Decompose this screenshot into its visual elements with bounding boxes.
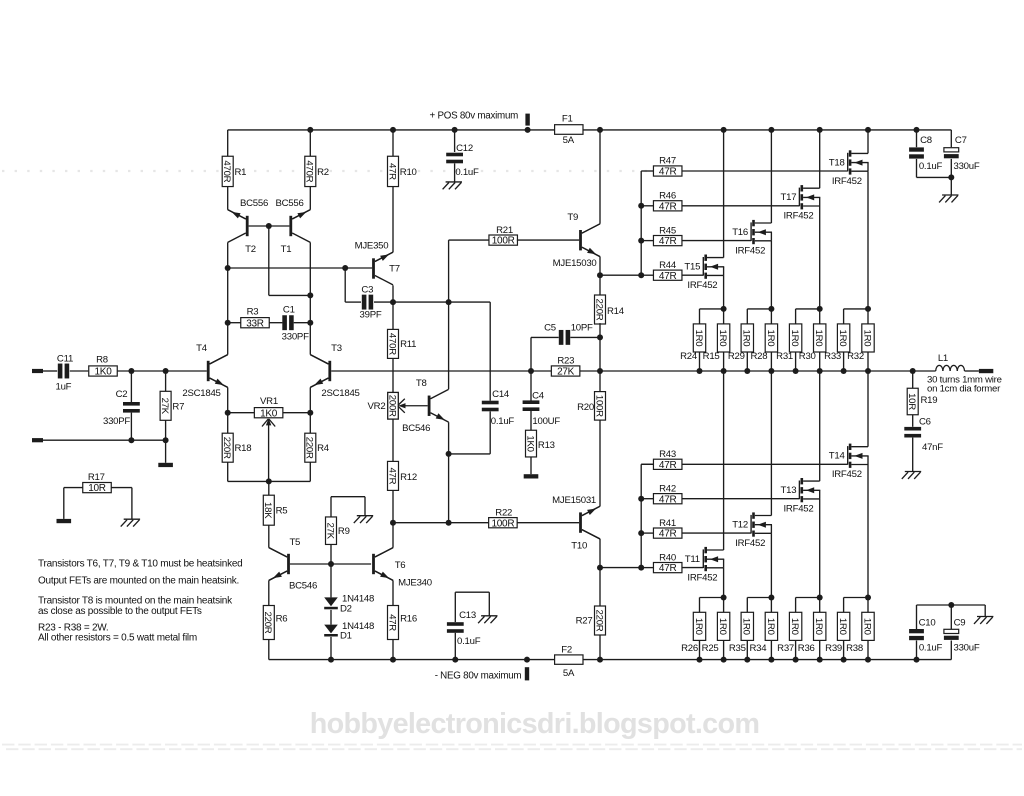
- wire gate R44 to T15: [682, 274, 703, 276]
- resistor R1: [222, 156, 233, 186]
- svg-text:1R0: 1R0: [717, 330, 728, 347]
- wire top +80V rail: [228, 129, 555, 131]
- svg-text:R26: R26: [681, 643, 698, 654]
- wire bias bottom line: [228, 480, 311, 482]
- trimpot VR1: [254, 408, 283, 418]
- svg-text:C1: C1: [283, 304, 295, 315]
- resistor R35 1R0: [747, 597, 771, 599]
- node R27 rail: [597, 657, 603, 663]
- ground R9: [357, 515, 373, 517]
- svg-text:R41: R41: [659, 518, 676, 529]
- node C3 branch: [342, 265, 348, 271]
- wire rail to R2: [309, 130, 311, 156]
- resistor R13: [526, 430, 537, 457]
- svg-text:1R0: 1R0: [813, 618, 824, 635]
- svg-text:1R0: 1R0: [693, 618, 704, 635]
- resistor R8: [89, 366, 118, 376]
- svg-text:220R: 220R: [593, 299, 604, 321]
- faint dashed artifact lines: [2, 744, 1022, 746]
- svg-text:330uF: 330uF: [954, 643, 980, 654]
- wire gate R41 to T12: [682, 532, 751, 534]
- ground C12: [446, 181, 462, 183]
- svg-text:39PF: 39PF: [360, 310, 382, 321]
- mosfet T16 (IRF452): [750, 222, 752, 241]
- node diode chain base: [328, 561, 334, 567]
- resistor R21: [489, 235, 518, 245]
- svg-text:2SC1845: 2SC1845: [321, 388, 359, 399]
- svg-text:R19: R19: [921, 395, 938, 406]
- svg-text:27K: 27K: [324, 523, 335, 540]
- node T4 emitter / VR1 / R18: [225, 410, 231, 416]
- svg-text:R44: R44: [659, 260, 677, 271]
- svg-text:47R: 47R: [659, 529, 677, 540]
- svg-text:T3: T3: [331, 343, 342, 354]
- wire source T14 down: [867, 465, 869, 598]
- resistor R10: [388, 156, 399, 186]
- wire rail corner down to R1: [227, 130, 229, 156]
- wire source T11 down: [723, 568, 725, 598]
- node T2 collector / T7 base line: [225, 265, 231, 271]
- resistor R9: [326, 517, 337, 545]
- svg-text:C14: C14: [492, 389, 510, 400]
- diode D2 (1N4148): [330, 564, 332, 597]
- wire gate R42 to T13: [682, 498, 800, 500]
- svg-text:IRF452: IRF452: [687, 280, 717, 291]
- svg-text:All other resistors = 0.5 watt: All other resistors = 0.5 watt metal fil…: [38, 633, 197, 644]
- wire return line: [43, 439, 166, 441]
- resistor R17: [83, 483, 112, 493]
- node rail C10: [914, 657, 920, 663]
- svg-text:47R: 47R: [386, 163, 397, 180]
- wire R21 to T9 base: [517, 239, 579, 241]
- wire R2 to T1 emitter: [309, 187, 311, 210]
- wire R22 line: [393, 522, 489, 524]
- wire C8 C7 ground join: [917, 176, 952, 178]
- svg-text:R16: R16: [400, 614, 417, 625]
- resistor R7: [165, 371, 167, 391]
- svg-text:R30: R30: [799, 351, 816, 362]
- transistor T2 (BC556): [228, 210, 246, 219]
- svg-text:1R0: 1R0: [861, 618, 872, 635]
- ground bar under R13: [524, 474, 539, 478]
- svg-text:100R: 100R: [491, 518, 514, 529]
- svg-text:10R: 10R: [906, 393, 917, 410]
- inductor L1: [936, 365, 943, 371]
- resistor R32 1R0: [867, 309, 869, 324]
- svg-text:1K0: 1K0: [260, 408, 278, 419]
- node R3-C1 right: [307, 320, 313, 326]
- svg-text:R47: R47: [659, 156, 676, 167]
- transistor T10 (MJE15031): [582, 506, 600, 515]
- capacitor C1: [282, 315, 287, 330]
- resistor R44: [641, 274, 653, 276]
- svg-text:330PF: 330PF: [282, 331, 309, 342]
- wire L1 to output stub: [965, 370, 979, 372]
- VR2 wiper arrow: [398, 399, 405, 406]
- svg-text:47R: 47R: [659, 494, 677, 505]
- svg-text:R7: R7: [172, 401, 184, 412]
- svg-text:F1: F1: [562, 113, 573, 124]
- svg-text:R37: R37: [777, 643, 794, 654]
- svg-text:MJE15031: MJE15031: [552, 495, 596, 506]
- svg-text:470R: 470R: [304, 160, 315, 182]
- resistor R2: [305, 156, 316, 186]
- wire T6 emitter to R16: [375, 571, 393, 580]
- svg-text:T5: T5: [289, 537, 300, 548]
- capacitor C14: [482, 401, 499, 405]
- ground C13: [481, 615, 497, 617]
- node R12 T6 collector: [390, 520, 396, 526]
- ground R17 right: [124, 518, 140, 520]
- svg-text:33R: 33R: [246, 318, 264, 329]
- wire R8 to T4 base: [117, 370, 207, 372]
- wire collector row to lower gate bus: [600, 567, 641, 569]
- resistor R40: [641, 567, 653, 569]
- svg-text:C6: C6: [919, 416, 931, 427]
- resistor R41: [641, 532, 653, 534]
- svg-text:L1: L1: [938, 353, 948, 364]
- input return stub: [32, 438, 43, 442]
- svg-text:Output FETs are mounted on the: Output FETs are mounted on the main heat…: [38, 576, 239, 587]
- svg-text:R23: R23: [557, 356, 574, 367]
- svg-text:T13: T13: [781, 485, 797, 496]
- svg-text:IRF452: IRF452: [832, 176, 862, 187]
- node C5 right: [597, 334, 603, 340]
- resistor R31 1R0: [796, 308, 820, 310]
- svg-text:330PF: 330PF: [103, 416, 130, 427]
- svg-text:1R0: 1R0: [789, 618, 800, 635]
- ground C7 C8: [942, 194, 958, 196]
- wire R17 left to ground: [64, 487, 83, 489]
- wire emitter row to gate bus: [600, 274, 641, 276]
- wire R3 to C1: [269, 322, 282, 324]
- svg-text:C5: C5: [544, 323, 556, 334]
- svg-text:100UF: 100UF: [532, 416, 560, 427]
- ground C6: [905, 471, 921, 473]
- svg-text:R24: R24: [680, 351, 698, 362]
- tick mark positive rail: [525, 114, 529, 126]
- svg-text:1N4148: 1N4148: [342, 593, 374, 604]
- wire lower gate bus: [640, 464, 642, 567]
- svg-text:1R0: 1R0: [813, 330, 824, 347]
- svg-text:330uF: 330uF: [954, 161, 980, 172]
- wire VAS line right: [393, 301, 449, 303]
- capacitor C12: [454, 130, 456, 152]
- svg-text:T12: T12: [732, 520, 748, 531]
- svg-text:IRF452: IRF452: [784, 211, 814, 222]
- svg-text:BC556: BC556: [275, 198, 303, 209]
- node D1 rail: [328, 657, 334, 663]
- wire VR1 to T3 emitter: [283, 412, 310, 414]
- resistor R15 1R0: [723, 309, 725, 324]
- svg-text:47R: 47R: [659, 201, 677, 212]
- wire T8 emitter down: [448, 422, 450, 454]
- resistor R12: [392, 419, 394, 461]
- wire C1 to T1 collector line: [294, 322, 311, 324]
- node rail R2: [307, 127, 313, 133]
- transistor T7 (MJE350): [375, 252, 393, 261]
- node gate bus bottom: [638, 272, 644, 278]
- node T3 emitter / VR1 / R4: [307, 410, 313, 416]
- wire R1 to T2 emitter: [227, 187, 229, 210]
- wire T7 collector down: [392, 285, 394, 302]
- svg-text:R4: R4: [317, 443, 330, 454]
- svg-text:T10: T10: [571, 540, 587, 551]
- wire gate R45 to T16: [682, 240, 751, 242]
- svg-text:IRF452: IRF452: [735, 538, 765, 549]
- transistor T1 (BC556): [292, 210, 310, 219]
- resistor R4: [309, 413, 311, 434]
- svg-text:27K: 27K: [159, 398, 170, 415]
- svg-text:R33: R33: [824, 351, 841, 362]
- svg-text:R22: R22: [495, 507, 512, 518]
- svg-text:1R0: 1R0: [837, 618, 848, 635]
- svg-text:on 1cm dia former: on 1cm dia former: [927, 384, 1001, 395]
- svg-text:as close as possible to the ou: as close as possible to the output FETs: [38, 606, 202, 617]
- svg-text:IRF452: IRF452: [832, 469, 862, 480]
- capacitor C10: [916, 605, 918, 629]
- svg-text:MJE350: MJE350: [355, 241, 389, 252]
- wire output line: [600, 370, 913, 372]
- svg-text:R1: R1: [235, 167, 247, 178]
- svg-text:T1: T1: [281, 244, 292, 255]
- svg-text:C3: C3: [361, 284, 373, 295]
- wire R7 to ground: [165, 440, 167, 463]
- svg-text:R43: R43: [659, 449, 676, 460]
- svg-text:47R: 47R: [386, 614, 397, 631]
- mosfet T17 (IRF452): [798, 188, 800, 207]
- svg-text:IRF452: IRF452: [687, 573, 717, 584]
- node rail R10: [390, 127, 396, 133]
- node rail C12: [452, 127, 458, 133]
- wire drain T18 to rail: [867, 130, 869, 154]
- resistor R43: [641, 463, 653, 465]
- svg-text:C11: C11: [57, 353, 73, 364]
- wire drain T13 to output line: [819, 371, 821, 481]
- svg-text:+ POS 80v maximum: + POS 80v maximum: [430, 111, 519, 122]
- svg-text:0.1uF: 0.1uF: [919, 161, 943, 172]
- svg-text:1R0: 1R0: [861, 330, 872, 347]
- mosfet T18 (IRF452): [847, 153, 849, 172]
- svg-text:R11: R11: [400, 339, 416, 350]
- svg-text:VR2: VR2: [368, 401, 386, 412]
- svg-text:R13: R13: [538, 440, 555, 451]
- node R3 left: [225, 320, 231, 326]
- wire source T16 down: [770, 241, 772, 309]
- wire T1 collector down: [309, 242, 311, 322]
- wire R17 right to ground: [111, 487, 132, 489]
- transistor T3 (2SC1845): [310, 355, 328, 364]
- resistor R26 1R0: [700, 597, 724, 599]
- svg-text:1R0: 1R0: [741, 618, 752, 635]
- node R23 left C4 C5: [528, 368, 534, 374]
- resistor R28 1R0: [770, 309, 772, 324]
- svg-text:R42: R42: [659, 483, 676, 494]
- capacitor C6: [904, 427, 921, 431]
- transistor T6 (MJE340): [372, 554, 375, 574]
- capacitor C4: [530, 371, 532, 401]
- resistor R24 1R0: [700, 308, 724, 310]
- svg-text:47nF: 47nF: [922, 442, 943, 453]
- resistor R38 1R0: [867, 598, 869, 613]
- resistor R30 1R0: [819, 309, 821, 324]
- svg-text:R40: R40: [659, 552, 676, 563]
- svg-text:C13: C13: [459, 610, 476, 621]
- svg-text:R8: R8: [96, 355, 108, 366]
- svg-text:10PF: 10PF: [571, 322, 593, 333]
- node R23 right on mid line: [597, 368, 603, 374]
- resistor R29 1R0: [747, 308, 771, 310]
- wire source T12 down: [770, 533, 772, 597]
- wire drain T12 to output line: [770, 371, 772, 516]
- wire bottom -80V rail: [269, 659, 555, 661]
- wire gate R46 to T17: [682, 205, 800, 207]
- svg-text:C4: C4: [532, 391, 545, 402]
- svg-text:Transistors T6, T7, T9 & T10 m: Transistors T6, T7, T9 & T10 must be hea…: [38, 558, 242, 569]
- svg-text:R20: R20: [577, 402, 594, 413]
- svg-text:1R0: 1R0: [789, 330, 800, 347]
- node R16 rail: [390, 657, 396, 663]
- input terminal stub: [32, 369, 43, 373]
- resistor R33 1R0: [844, 308, 868, 310]
- svg-text:47R: 47R: [659, 167, 677, 178]
- wire gate R40 to T11: [682, 567, 703, 569]
- transistor T8 (BC546): [428, 396, 431, 416]
- resistor R34 1R0: [770, 598, 772, 613]
- svg-text:C12: C12: [456, 143, 473, 154]
- svg-text:C9: C9: [954, 617, 966, 628]
- svg-text:D1: D1: [340, 631, 352, 642]
- wire gate R43 to T14: [682, 463, 848, 465]
- svg-text:100R: 100R: [492, 236, 515, 247]
- wire T7 base line: [228, 267, 372, 269]
- wire source T17 down: [819, 206, 821, 309]
- svg-text:47R: 47R: [659, 563, 677, 574]
- svg-text:T11: T11: [685, 554, 700, 565]
- svg-text:0.1uF: 0.1uF: [457, 636, 481, 647]
- svg-text:0.1uF: 0.1uF: [919, 643, 943, 654]
- fuse F2: [555, 655, 583, 664]
- svg-text:2SC1845: 2SC1845: [182, 388, 220, 399]
- wire R10 to T7 emitter: [392, 187, 394, 253]
- ground bar under R7: [158, 463, 173, 467]
- wire rail to R10: [392, 130, 394, 156]
- svg-text:R2: R2: [317, 167, 329, 178]
- resistor R39 1R0: [844, 597, 868, 599]
- svg-text:R35: R35: [729, 643, 746, 654]
- transistor T5 (BC546): [269, 548, 287, 557]
- svg-text:R10: R10: [400, 167, 417, 178]
- capacitor C7 (electrolytic): [950, 130, 952, 147]
- resistor R36 1R0: [819, 598, 821, 613]
- svg-text:BC546: BC546: [289, 580, 317, 591]
- resistor R14: [599, 275, 601, 296]
- svg-text:R21: R21: [496, 225, 513, 236]
- svg-text:10R: 10R: [88, 483, 106, 494]
- mosfet T14 (IRF452): [847, 446, 849, 465]
- mosfet T15 (IRF452): [702, 257, 704, 276]
- svg-text:R3: R3: [247, 307, 259, 318]
- svg-text:47R: 47R: [659, 460, 677, 471]
- svg-text:470R: 470R: [221, 160, 232, 182]
- svg-text:C10: C10: [919, 617, 936, 628]
- svg-text:1K0: 1K0: [94, 367, 112, 378]
- svg-text:F2: F2: [561, 645, 572, 656]
- resistor R19: [912, 371, 914, 388]
- tick mark negative rail: [525, 667, 529, 680]
- svg-text:BC556: BC556: [240, 198, 268, 209]
- wire T4 emitter down: [227, 387, 229, 412]
- svg-text:1R0: 1R0: [837, 330, 848, 347]
- svg-text:R31: R31: [776, 351, 793, 362]
- wire drain T17 to rail: [819, 130, 821, 188]
- resistor R3: [228, 322, 241, 324]
- diode D1 (1N4148): [330, 610, 332, 625]
- svg-text:0.1uF: 0.1uF: [455, 167, 479, 178]
- wire source T15 down: [723, 275, 725, 309]
- svg-text:220R: 220R: [593, 610, 604, 632]
- resistor R46: [641, 205, 653, 207]
- svg-text:MJE15030: MJE15030: [553, 258, 597, 269]
- svg-text:220R: 220R: [262, 612, 273, 634]
- node base tie: [266, 223, 272, 229]
- wire R5 to T5 collector: [268, 525, 270, 548]
- svg-text:R27: R27: [576, 615, 593, 626]
- wire C11 to R8: [70, 370, 89, 372]
- svg-text:1uF: 1uF: [56, 382, 72, 393]
- svg-text:0.1uF: 0.1uF: [491, 416, 515, 427]
- transistor T9 (MJE15030): [582, 224, 600, 233]
- svg-text:1R0: 1R0: [765, 330, 776, 347]
- svg-text:R17: R17: [88, 472, 105, 483]
- node rail C8: [914, 127, 920, 133]
- VR1 wiper arrow: [262, 419, 268, 427]
- node lower gate bus: [638, 565, 644, 571]
- svg-text:C8: C8: [920, 135, 932, 146]
- wire T8 collector up: [448, 240, 450, 389]
- wire input to C11: [43, 370, 57, 372]
- svg-text:T4: T4: [196, 343, 208, 354]
- resistor R6: [263, 606, 274, 640]
- svg-text:R34: R34: [749, 643, 767, 654]
- transistor T4 (2SC1845): [210, 355, 228, 364]
- mosfet T12 (IRF452): [750, 515, 752, 534]
- resistor R11: [392, 302, 394, 330]
- svg-text:200R: 200R: [386, 395, 397, 417]
- wire T10 collector down: [599, 539, 601, 568]
- resistor R47: [641, 170, 653, 172]
- svg-text:R28: R28: [750, 351, 767, 362]
- svg-text:1R0: 1R0: [693, 330, 704, 347]
- wire T2 collector down: [227, 242, 229, 268]
- wire T5 emitter to R6: [268, 580, 270, 605]
- wire T1-T2 base tie: [249, 225, 290, 227]
- svg-text:- NEG 80v maximum: - NEG 80v maximum: [435, 671, 522, 682]
- resistor R5: [268, 481, 270, 495]
- resistor R42: [641, 498, 653, 500]
- resistor R27: [599, 568, 601, 607]
- svg-text:MJE340: MJE340: [398, 577, 432, 588]
- wire source T13 down: [819, 499, 821, 598]
- svg-text:C7: C7: [955, 135, 967, 146]
- svg-text:5A: 5A: [563, 668, 575, 679]
- faint dotted artifact line: [2, 170, 652, 172]
- svg-text:R5: R5: [276, 506, 288, 517]
- svg-text:470R: 470R: [386, 333, 397, 355]
- svg-text:R38: R38: [846, 643, 863, 654]
- wire drain T11 to output line: [723, 371, 725, 550]
- node R7 junction: [163, 368, 169, 374]
